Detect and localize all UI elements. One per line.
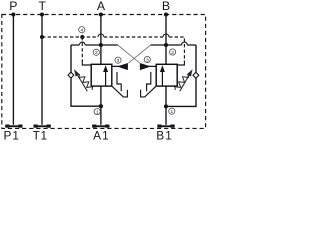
junction dot B top — [164, 12, 168, 16]
wire A line lower — [100, 86, 102, 125]
drain branch right entry to valve — [177, 61, 184, 66]
flow arrow in right box — [161, 71, 163, 86]
pilot line left horizontal — [71, 44, 118, 46]
adjustable spring left — [79, 74, 93, 90]
pilot pocket hook left — [112, 86, 128, 97]
svg-text:3: 3 — [117, 58, 120, 64]
pilot arrowhead into left box — [117, 63, 128, 70]
wire B line lower — [165, 86, 167, 125]
counterbalance valve box left — [91, 64, 112, 86]
spring side line left — [71, 45, 101, 106]
svg-text:B: B — [162, 0, 170, 13]
bottom port symbol P1 — [5, 125, 22, 128]
drain hop over A line — [98, 34, 104, 37]
drain branch left entry to valve — [82, 61, 91, 66]
callout 3 right — [144, 56, 150, 63]
drain hop over B line — [163, 34, 169, 37]
svg-text:P1: P1 — [3, 128, 20, 142]
svg-text:A1: A1 — [93, 128, 110, 142]
pilot cross diagonal from B to left valve — [128, 45, 150, 63]
junction dot A top — [99, 12, 103, 16]
svg-text:P: P — [9, 0, 17, 13]
pilot piston pin right — [147, 72, 151, 91]
wire A line upper — [100, 15, 102, 65]
spring side line right — [166, 45, 196, 106]
svg-text:4: 4 — [80, 28, 83, 34]
svg-text:B1: B1 — [156, 128, 173, 142]
pilot stub into left box — [112, 65, 128, 67]
pilot piston pin left — [117, 72, 121, 91]
callout 2 right — [170, 49, 176, 56]
pilot line right horizontal — [151, 44, 196, 46]
junction dot P top — [11, 12, 15, 16]
svg-text:2: 2 — [95, 50, 98, 56]
counterbalance valve box right — [156, 64, 177, 86]
pilot pocket hook right — [141, 86, 157, 97]
callout 4 — [79, 27, 85, 34]
callout 1 right — [169, 108, 175, 115]
junction dot A rail — [99, 104, 103, 108]
callout 2 left — [93, 49, 99, 56]
bottom port symbol B1 — [157, 125, 174, 128]
svg-text:1: 1 — [96, 110, 99, 116]
wire T line — [41, 15, 43, 125]
junction dot T drain — [40, 35, 44, 39]
pilot cross diagonal from A to right valve — [118, 45, 140, 63]
flow arrow in left box — [105, 71, 107, 86]
manifold block dashed enclosure — [2, 15, 206, 129]
pilot hop over drain branch right — [182, 42, 188, 45]
drain branch left dashed — [81, 37, 83, 61]
wire B line upper — [165, 15, 167, 65]
drain line dashed from T — [42, 37, 184, 61]
adjustment arrow left — [78, 75, 88, 91]
svg-text:2: 2 — [171, 50, 174, 56]
junction dot drain branch — [80, 35, 84, 39]
svg-text:T: T — [39, 0, 47, 13]
junction dot A pilot — [99, 43, 103, 47]
adjustment arrow right — [180, 75, 189, 91]
adjustable spring right — [175, 74, 189, 90]
vent diamond left — [68, 72, 74, 78]
bottom port symbol A1 — [92, 125, 109, 128]
bottom port symbol T1 — [34, 125, 51, 128]
vent diamond right — [193, 72, 199, 78]
junction dot T top — [40, 12, 44, 16]
svg-text:A: A — [97, 0, 106, 13]
pilot stub into right box — [140, 65, 156, 67]
junction dot B pilot — [164, 43, 168, 47]
callout 3 left — [115, 57, 121, 64]
callout 1 left — [94, 109, 100, 116]
pilot arrowhead into right box — [140, 63, 151, 70]
svg-text:1: 1 — [170, 109, 173, 115]
svg-text:3: 3 — [146, 57, 149, 63]
pilot hop over drain branch left — [79, 42, 85, 45]
junction dot B rail — [164, 104, 168, 108]
wire P line — [12, 15, 14, 125]
svg-text:T1: T1 — [33, 128, 48, 142]
